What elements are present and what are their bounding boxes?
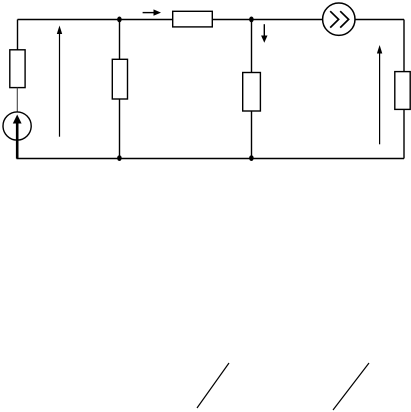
node C (bottom junction 1) [117, 155, 122, 161]
source I2 chevron 2 [340, 11, 348, 27]
source I2 chevron 1 [330, 11, 338, 27]
voltage arrow right (upward) [379, 48, 381, 144]
stroke mark 1 (diagonal slash) [197, 363, 229, 408]
resistor R3 (horizontal top) [173, 11, 213, 27]
source I2 circle (chevron source) [323, 3, 355, 35]
bottom wire [17, 158, 405, 160]
wire node B to R4 [251, 20, 253, 73]
wire top-middle segment [212, 19, 322, 21]
node D (bottom junction 2) [249, 155, 254, 161]
voltage arrow left (upward) [59, 29, 61, 137]
current arrow (top, rightward) [143, 12, 156, 14]
current source I1 arrow [16, 122, 19, 159]
stroke mark 2 (diagonal slash) [333, 363, 369, 410]
current source I1 circle [3, 112, 31, 140]
resistor R4 (second middle vertical) [243, 73, 261, 112]
node A (top junction 1) [117, 17, 122, 23]
wire top-right segment [355, 19, 404, 21]
current arrow (down, at node B) [263, 24, 265, 38]
wire R1 to source I1 [16, 88, 18, 113]
resistor R1 (left vertical) [10, 50, 25, 88]
wire left vertical upper [17, 20, 19, 51]
wire node A to R2 [119, 20, 121, 60]
wire top-left segment [18, 19, 173, 21]
wire R4 to bottom [251, 111, 253, 159]
wire R2 to bottom [119, 99, 121, 159]
wire right vertical upper [403, 20, 405, 72]
resistor R2 (middle vertical) [112, 59, 127, 99]
wire R5 to bottom-right corner [403, 109, 405, 158]
resistor R5 (right vertical) [395, 72, 410, 110]
node B (top junction 2) [249, 17, 254, 23]
